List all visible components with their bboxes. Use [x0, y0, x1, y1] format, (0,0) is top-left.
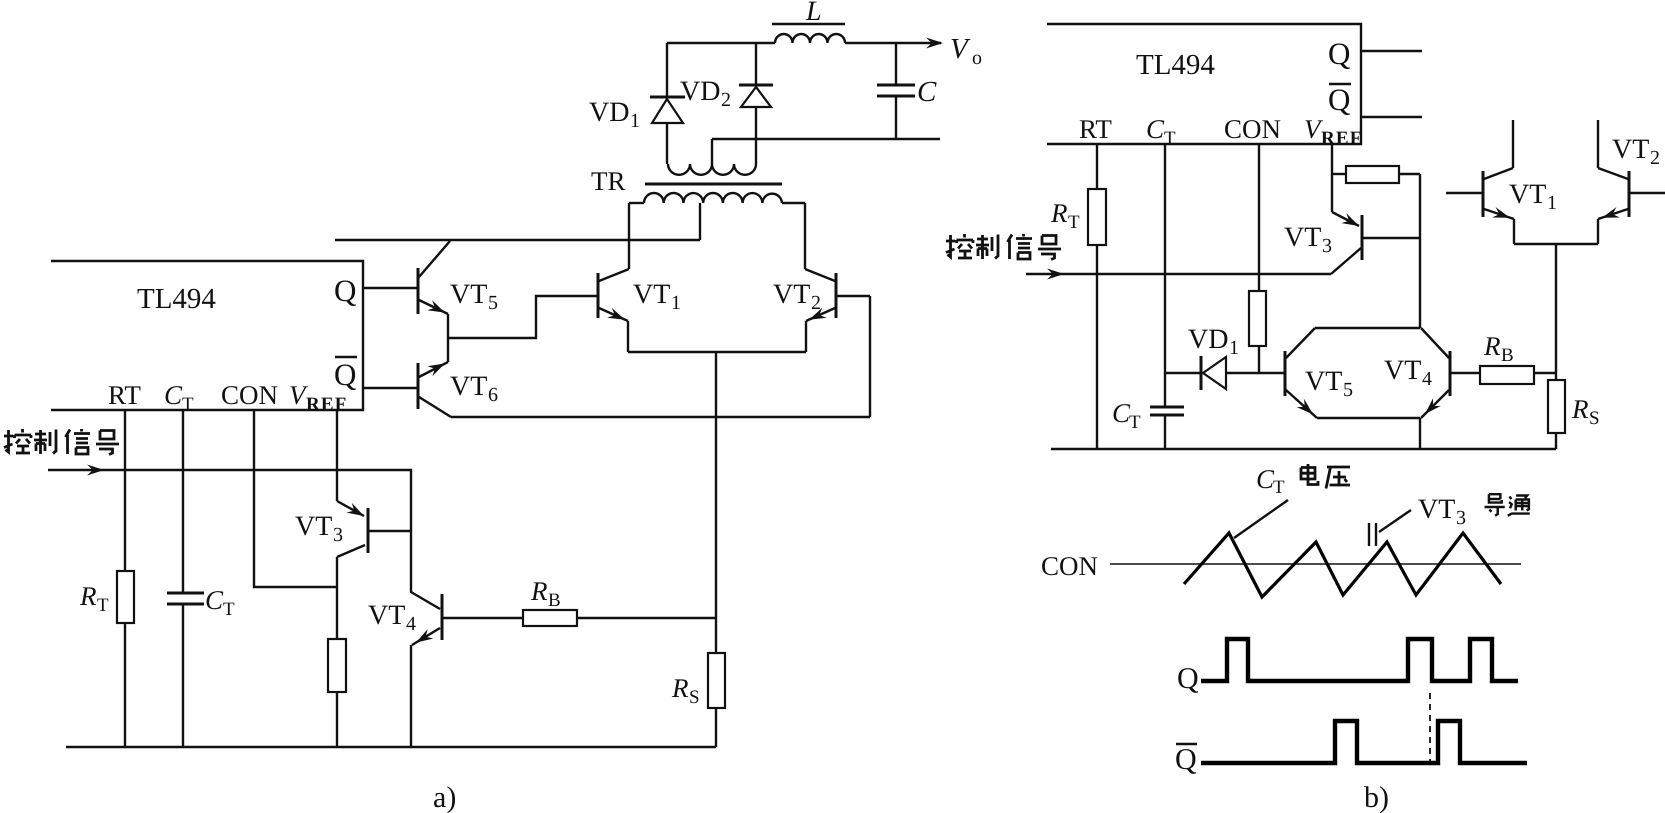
svg-text:1: 1	[630, 110, 640, 132]
capacitor CT (a)	[167, 410, 235, 747]
svg-text:RT: RT	[1079, 114, 1112, 144]
transistor VT1 (a)	[598, 203, 681, 352]
transistor VT4 (a)	[368, 592, 523, 747]
inductor L	[772, 0, 845, 43]
diode VD2 (a)	[680, 43, 773, 164]
svg-text:TR: TR	[591, 166, 626, 196]
ground rail bottom (a)	[66, 746, 716, 748]
transistor VT2 (b)	[1598, 120, 1665, 244]
svg-text:5: 5	[1343, 379, 1353, 401]
svg-text:S: S	[1589, 408, 1600, 429]
svg-text:b): b)	[1364, 781, 1389, 813]
svg-text:2: 2	[811, 292, 821, 314]
pin label CT (a)	[164, 380, 194, 415]
wire control line (a)	[48, 465, 411, 594]
svg-text:3: 3	[1456, 507, 1466, 529]
svg-text:VD: VD	[589, 97, 629, 128]
resistor RB (b)	[1480, 331, 1556, 384]
wire output return	[712, 138, 940, 140]
capacitor CT (b)	[1112, 144, 1184, 449]
svg-text:VD: VD	[680, 76, 720, 107]
wire emitter bus (a)	[628, 351, 806, 353]
svg-text:C: C	[164, 380, 183, 410]
supply rail (a)	[335, 239, 700, 241]
transistor VT5 (b)	[1285, 328, 1420, 418]
ground rail bottom (b)	[1051, 448, 1556, 450]
diode VD1 (b)	[1165, 324, 1285, 390]
svg-text:REF: REF	[306, 394, 348, 415]
svg-text:3: 3	[333, 524, 343, 546]
svg-text:2: 2	[1650, 147, 1660, 169]
transistor VT5 (a)	[418, 241, 498, 338]
svg-text:VD: VD	[1188, 324, 1228, 355]
TL494 box (b)	[1047, 24, 1361, 144]
svg-text:4: 4	[1422, 368, 1432, 390]
svg-text:Q: Q	[1177, 662, 1199, 695]
pin Q (a)	[334, 273, 418, 308]
svg-text:VT: VT	[450, 279, 487, 310]
svg-text:T: T	[1273, 477, 1285, 498]
resistor below VT3 (a)	[328, 639, 346, 747]
capacitor C (a)	[877, 43, 937, 138]
svg-text:Q: Q	[1328, 82, 1350, 117]
svg-text:VT: VT	[1509, 179, 1546, 210]
svg-text:R: R	[79, 581, 97, 611]
svg-text:VT: VT	[450, 371, 487, 402]
svg-text:Q: Q	[334, 357, 356, 392]
wire control line (b)	[1026, 269, 1331, 280]
diode VD1 (a)	[589, 43, 685, 164]
svg-text:5: 5	[488, 292, 498, 314]
transformer TR	[591, 139, 805, 240]
pin Q (b)	[1328, 36, 1422, 71]
svg-text:C: C	[1146, 114, 1165, 144]
label VT3 conducting	[1369, 494, 1530, 546]
transistor VT3 (a)	[295, 501, 411, 639]
svg-text:C: C	[205, 585, 224, 615]
svg-text:RT: RT	[108, 380, 141, 410]
wire rectifier top rail	[667, 42, 775, 44]
svg-text:R: R	[1571, 394, 1589, 424]
svg-text:S: S	[689, 687, 700, 708]
transistor VT1 (b)	[1446, 120, 1557, 244]
svg-text:VT: VT	[633, 279, 670, 310]
pin Qbar (a)	[334, 357, 418, 392]
svg-text:VT: VT	[1612, 134, 1649, 165]
resistor on VREF (b)	[1332, 144, 1420, 212]
transistor VT4 (b)	[1384, 328, 1480, 449]
svg-text:VT: VT	[1305, 366, 1342, 397]
svg-text:B: B	[1501, 345, 1514, 366]
svg-text:VT: VT	[1384, 355, 1421, 386]
resistor RS (a)	[671, 352, 725, 747]
svg-text:1: 1	[1229, 337, 1239, 359]
svg-text:TL494: TL494	[1136, 49, 1215, 81]
transistor VT6 (a)	[418, 338, 870, 417]
label CT voltage	[1234, 464, 1350, 538]
pin label CT (b)	[1146, 114, 1176, 149]
dashed timing line	[1429, 693, 1431, 762]
svg-text:T: T	[223, 599, 235, 620]
svg-text:CON: CON	[1041, 551, 1098, 581]
waveform Q	[1201, 639, 1518, 681]
svg-text:1: 1	[671, 292, 681, 314]
svg-text:o: o	[972, 47, 982, 69]
svg-text:T: T	[97, 595, 109, 616]
svg-text:T: T	[1129, 412, 1141, 433]
svg-text:1: 1	[1547, 192, 1557, 214]
svg-text:Q: Q	[334, 273, 356, 308]
svg-text:VT: VT	[773, 279, 810, 310]
label control signal (b)	[946, 234, 1061, 260]
svg-text:B: B	[548, 590, 561, 611]
svg-text:V: V	[950, 33, 971, 65]
svg-text:4: 4	[406, 613, 416, 635]
TL494 box (a)	[51, 261, 363, 410]
wire VREF pin (a)	[336, 410, 338, 501]
waveform Qbar	[1201, 721, 1527, 763]
svg-text:a): a)	[433, 781, 456, 813]
transistor VT3 (b)	[1284, 212, 1420, 274]
resistor RS (b)	[1548, 244, 1600, 449]
svg-text:R: R	[671, 673, 689, 703]
resistor RT (a)	[79, 410, 134, 747]
wire CON pin (a)	[254, 410, 337, 587]
svg-text:R: R	[530, 576, 548, 606]
svg-text:TL494: TL494	[137, 283, 216, 315]
svg-text:REF: REF	[1321, 128, 1363, 149]
pin label VREF (a)	[289, 380, 348, 415]
svg-text:R: R	[1483, 331, 1501, 361]
pin Qbar (b)	[1328, 82, 1422, 117]
pin label VREF (b)	[1304, 114, 1363, 149]
wire output Vo	[845, 33, 982, 69]
svg-text:Q: Q	[1175, 743, 1197, 776]
resistor RT (b)	[1050, 144, 1106, 449]
svg-text:Q: Q	[1328, 36, 1350, 71]
wire vertical node (b)	[1419, 174, 1421, 328]
svg-text:CON: CON	[1224, 114, 1281, 144]
resistor on CON pin (b)	[1249, 144, 1266, 373]
svg-text:VT: VT	[368, 600, 405, 631]
svg-text:CON: CON	[221, 380, 278, 410]
wire VT5/VT6 emitters to VT1 base	[448, 296, 598, 338]
svg-text:T: T	[1068, 212, 1080, 233]
waveform CT sawtooth	[1184, 533, 1501, 597]
resistor RB (a)	[523, 576, 716, 626]
svg-text:R: R	[1050, 198, 1068, 228]
svg-text:2: 2	[721, 89, 731, 111]
wire CON baseline	[1110, 563, 1521, 565]
wire emitter bus (b)	[1514, 243, 1598, 245]
svg-text:VT: VT	[1284, 222, 1321, 253]
label Qbar (waveform)	[1175, 743, 1197, 776]
svg-text:L: L	[805, 0, 822, 27]
label control signal (a)	[4, 429, 119, 455]
svg-text:VT: VT	[1418, 494, 1455, 525]
svg-text:VT: VT	[295, 511, 332, 542]
svg-text:C: C	[917, 76, 937, 108]
svg-text:3: 3	[1322, 235, 1332, 257]
transistor VT2 (a)	[773, 203, 870, 417]
svg-text:6: 6	[488, 384, 498, 406]
